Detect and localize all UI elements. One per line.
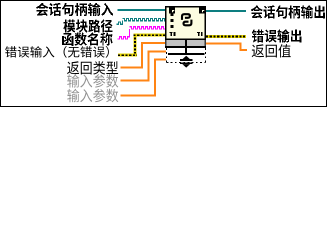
terminal label: 错误输入（无错误） — [5, 46, 109, 58]
terminal label: 函数名称 — [62, 33, 112, 46]
diagram outer frame — [1, 1, 327, 107]
wire: input parameter 1 (orange) — [121, 51, 167, 82]
wire: error in (yellow/black dashed), label hook up to icon — [118, 34, 165, 57]
wire: return type (orange) — [121, 42, 166, 68]
terminal label: 输入参数 — [67, 74, 118, 88]
terminal label: 会话句柄输出 — [251, 5, 325, 18]
icon glyph: python snake — [182, 14, 191, 25]
icon glyph: top-right session page mark — [199, 7, 205, 13]
icon glyph: bottom-left pin mark — [170, 32, 176, 36]
wire: session handle out (teal) — [206, 10, 246, 12]
terminal label: 模块路径 — [63, 19, 112, 32]
wire: function name (pink squiggle) — [118, 27, 166, 39]
icon terminals: left edge squares — [171, 13, 174, 28]
terminal label: 返回类型 — [67, 61, 118, 74]
wire: return value (orange) — [206, 42, 247, 51]
node: Python Node icon body — [166, 7, 206, 40]
symbol: adapt-to-type (stem, bars, triangles) — [168, 39, 205, 68]
wire: input parameter 2 (orange) — [121, 59, 167, 97]
node section: dotted input-parameter cell — [167, 48, 206, 63]
icon glyph: top-left session page mark — [169, 7, 175, 13]
terminal label: 会话句柄输入 — [36, 3, 113, 16]
wire: session handle in (teal) — [118, 9, 166, 11]
wire: module path (teal squiggle) — [117, 18, 166, 24]
terminal label: 返回值 — [252, 44, 291, 57]
wire: error out (yellow/black dashed) — [206, 35, 246, 38]
terminal label: 错误输出 — [252, 29, 302, 42]
terminal label: 输入参数 — [67, 89, 118, 103]
node section: grey terminal row — [165, 40, 206, 48]
icon glyph: bottom-right pin mark — [197, 32, 203, 36]
